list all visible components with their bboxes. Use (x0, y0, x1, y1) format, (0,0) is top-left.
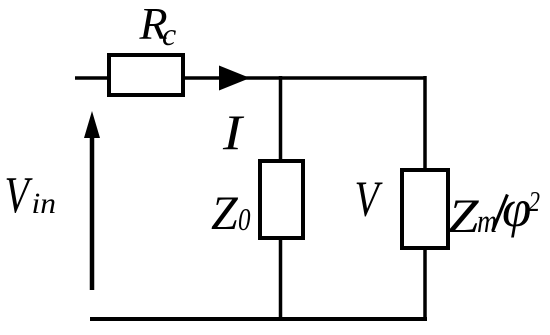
wire: input stub (75, 76, 109, 80)
svg-text:φ: φ (502, 180, 531, 238)
resistor Rc (109, 55, 183, 95)
svg-text:m: m (477, 204, 497, 240)
impedance Z0 (260, 161, 303, 238)
wire: Z0 branch bottom (279, 238, 283, 321)
svg-text:I: I (222, 104, 245, 160)
wire: Z0 branch top (279, 76, 283, 162)
svg-text:c: c (162, 16, 176, 52)
voltage arrow Vin (90, 137, 95, 290)
svg-text:V: V (355, 172, 384, 228)
svg-text:0: 0 (238, 201, 251, 237)
svg-text:V: V (5, 167, 33, 224)
current arrow I (219, 66, 250, 91)
wire: right branch bottom (423, 248, 427, 321)
svg-text:Z: Z (211, 187, 239, 240)
svg-text:2: 2 (529, 186, 541, 218)
impedance Zm/phi2 (402, 170, 448, 248)
svg-text:Z: Z (448, 190, 480, 243)
svg-text:in: in (32, 187, 57, 220)
wire: right branch top (423, 76, 427, 171)
wire: bottom horizontal (90, 317, 427, 321)
wire: top horizontal (185, 76, 425, 80)
